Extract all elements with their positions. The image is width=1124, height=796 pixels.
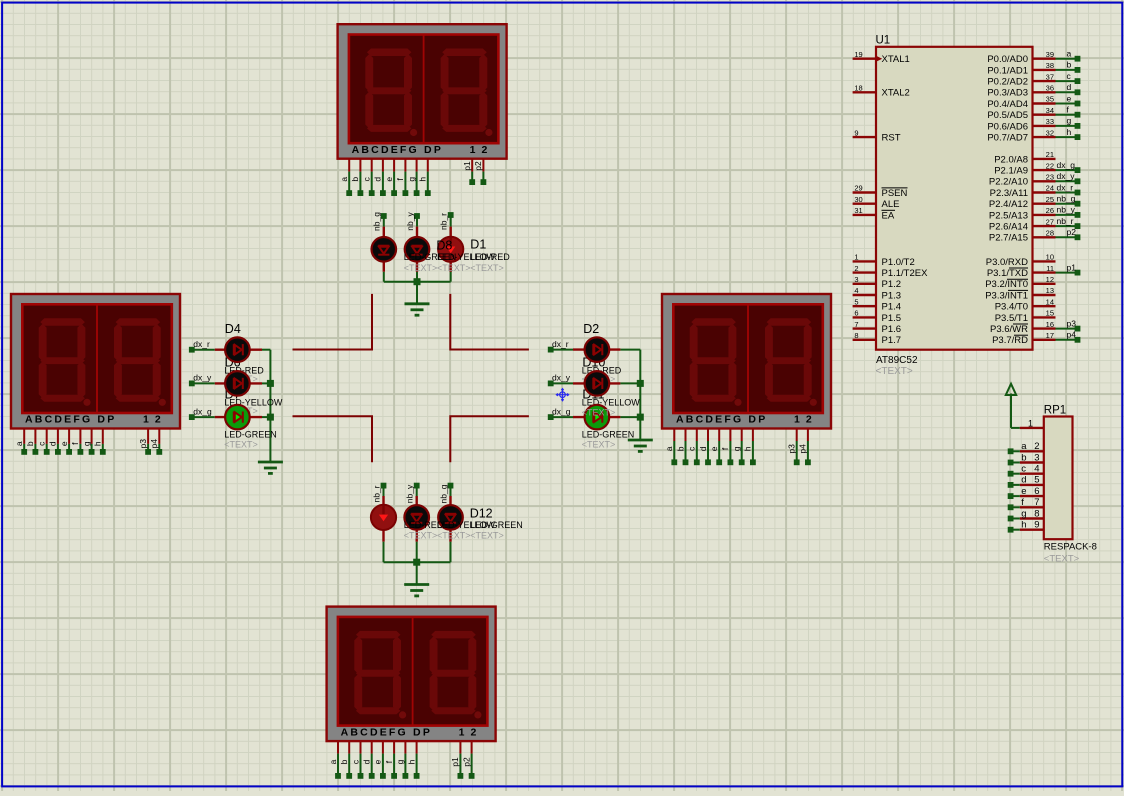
led D2 green on xyxy=(585,405,610,430)
svg-text:<TEXT>: <TEXT> xyxy=(437,531,471,541)
wire LED cathode xyxy=(416,542,418,563)
svg-text:P1.6: P1.6 xyxy=(882,324,902,335)
U1 pin 33 P0.6/AD6 xyxy=(1033,125,1056,127)
node dx_r terminal xyxy=(548,347,554,353)
svg-text:<TEXT>: <TEXT> xyxy=(404,263,438,273)
svg-text:17: 17 xyxy=(1046,331,1054,340)
RP1 pin 6 net e xyxy=(1020,495,1044,497)
terminal p4 xyxy=(1075,337,1081,343)
U1 pin 1 P1.0/T2 xyxy=(853,260,876,262)
display right pin h wire xyxy=(752,429,754,441)
svg-text:P0.5/AD5: P0.5/AD5 xyxy=(987,110,1028,121)
svg-text:<TEXT>: <TEXT> xyxy=(404,531,438,541)
svg-text:34: 34 xyxy=(1046,106,1054,115)
svg-text:P2.6/A14: P2.6/A14 xyxy=(989,222,1028,233)
node dx_y terminal xyxy=(189,381,195,387)
display top pin c wire xyxy=(371,159,373,172)
svg-text:ALE: ALE xyxy=(882,199,900,210)
display top pin p1 wire xyxy=(471,159,473,172)
svg-text:LED-GREEN: LED-GREEN xyxy=(470,520,523,530)
svg-text:AT89C52: AT89C52 xyxy=(876,355,918,366)
svg-text:5: 5 xyxy=(854,297,858,306)
svg-text:14: 14 xyxy=(1046,297,1054,306)
svg-text:2: 2 xyxy=(854,264,858,273)
svg-text:g: g xyxy=(406,177,416,182)
wire net g xyxy=(1056,125,1078,127)
wire net f xyxy=(1056,114,1078,116)
svg-text:13: 13 xyxy=(1046,286,1054,295)
svg-text:<TEXT>: <TEXT> xyxy=(224,440,258,450)
U1 pin 24 P2.3/A11 xyxy=(1033,191,1056,193)
svg-text:30: 30 xyxy=(854,195,862,204)
svg-text:a: a xyxy=(339,177,349,182)
RP1 pin 9 net h xyxy=(1020,529,1044,531)
U1 pin 16 P3.6/WR xyxy=(1033,327,1056,329)
display bottom pin g wire xyxy=(404,741,406,753)
svg-text:22: 22 xyxy=(1046,161,1054,170)
node dx_g terminal xyxy=(548,414,554,420)
wire cathode bus left group xyxy=(269,350,271,462)
svg-text:P3.2/INT0: P3.2/INT0 xyxy=(985,279,1028,290)
U1 pin 6 P1.5 xyxy=(853,316,876,318)
svg-text:e: e xyxy=(384,177,394,182)
svg-text:4: 4 xyxy=(854,286,858,295)
ground top group xyxy=(405,302,430,305)
svg-text:<TEXT>: <TEXT> xyxy=(582,439,616,449)
svg-text:P2.7/A15: P2.7/A15 xyxy=(989,233,1028,244)
U1 pin 4 P1.3 xyxy=(853,294,876,296)
wire nb_g to LED xyxy=(450,486,452,496)
7-segment display right xyxy=(662,294,831,429)
terminal d xyxy=(1075,89,1081,95)
svg-text:P0.1/AD1: P0.1/AD1 xyxy=(987,65,1028,76)
svg-text:LED-RED: LED-RED xyxy=(470,252,510,262)
svg-text:p4: p4 xyxy=(1067,330,1077,340)
svg-text:p2: p2 xyxy=(473,161,483,171)
svg-text:<TEXT>: <TEXT> xyxy=(470,531,504,541)
wire cathode bus right group xyxy=(639,350,641,440)
terminal p3 xyxy=(1075,326,1081,332)
svg-text:25: 25 xyxy=(1046,195,1054,204)
svg-text:b: b xyxy=(350,177,360,182)
wire LED cathode xyxy=(262,349,270,351)
svg-text:RST: RST xyxy=(882,133,901,144)
display bottom pin h wire xyxy=(416,741,418,753)
display left pin b wire xyxy=(34,429,36,444)
svg-text:nb_g: nb_g xyxy=(438,484,448,503)
svg-text:9: 9 xyxy=(854,128,858,137)
wire LED cathode xyxy=(620,349,640,351)
origin marker xyxy=(556,389,568,401)
wire net dx_g xyxy=(1056,169,1078,171)
svg-text:28: 28 xyxy=(1046,229,1054,238)
U1 pin 38 P0.1/AD1 xyxy=(1033,69,1056,71)
road bottom-left corner xyxy=(293,416,373,462)
svg-text:D4: D4 xyxy=(225,322,241,336)
svg-text:27: 27 xyxy=(1046,217,1054,226)
wire net h xyxy=(1056,136,1078,138)
U1 pin 22 P2.1/A9 xyxy=(1033,169,1056,171)
terminal dx_g xyxy=(1075,167,1081,173)
svg-text:26: 26 xyxy=(1046,206,1054,215)
display bottom pin d wire xyxy=(371,741,373,753)
power symbol VCC xyxy=(1006,384,1016,395)
ground left group xyxy=(258,461,283,464)
svg-text:29: 29 xyxy=(854,184,862,193)
RP1 pin 5 net d xyxy=(1020,484,1044,486)
svg-text:dx_g: dx_g xyxy=(1057,160,1076,170)
svg-text:P2.0/A8: P2.0/A8 xyxy=(994,154,1028,165)
svg-text:p3: p3 xyxy=(1067,318,1077,328)
wire nb_y to LED xyxy=(416,486,418,496)
svg-text:21: 21 xyxy=(1046,150,1054,159)
U1 pin 36 P0.3/AD3 xyxy=(1033,91,1056,93)
svg-text:nb_r: nb_r xyxy=(371,485,381,502)
svg-text:XTAL2: XTAL2 xyxy=(882,88,910,99)
U1 pin 27 P2.6/A14 xyxy=(1033,225,1056,227)
svg-text:p2: p2 xyxy=(1067,227,1077,237)
svg-text:37: 37 xyxy=(1046,72,1054,81)
wire LED cathode xyxy=(416,272,418,282)
display right pin d wire xyxy=(707,429,709,441)
svg-text:8: 8 xyxy=(1034,508,1039,519)
svg-text:D8: D8 xyxy=(436,238,452,252)
display top pin a wire xyxy=(348,159,350,172)
wire LED cathode xyxy=(262,416,270,418)
svg-text:P2.3/A11: P2.3/A11 xyxy=(990,188,1028,199)
U1 pin 29 PSEN xyxy=(853,191,876,193)
U1 XTAL1 clock arrow xyxy=(876,56,882,62)
led D6 red off xyxy=(225,337,250,362)
node nb_r terminal xyxy=(381,483,387,489)
svg-text:5: 5 xyxy=(1034,475,1039,486)
svg-text:P1.2: P1.2 xyxy=(882,279,902,290)
svg-text:P2.5/A13: P2.5/A13 xyxy=(989,210,1028,221)
display left pin g wire xyxy=(91,429,93,444)
svg-text:nb_r: nb_r xyxy=(1057,216,1074,226)
svg-text:18: 18 xyxy=(854,84,862,93)
wire net e xyxy=(1056,103,1078,105)
U1 pin 3 P1.2 xyxy=(853,283,876,285)
svg-text:PSEN: PSEN xyxy=(882,188,908,199)
svg-text:P2.1/A9: P2.1/A9 xyxy=(994,166,1028,177)
wire to ground xyxy=(416,562,418,584)
svg-text:h: h xyxy=(418,177,428,182)
svg-text:P1.7: P1.7 xyxy=(882,335,902,346)
svg-text:P1.5: P1.5 xyxy=(882,313,902,324)
display top pin d wire xyxy=(382,159,384,172)
wire LED cathode xyxy=(620,382,640,384)
node dx_r terminal xyxy=(189,347,195,353)
display right pin p4 wire xyxy=(807,429,809,441)
terminal nb_y xyxy=(1075,212,1081,218)
svg-text:12: 12 xyxy=(1046,275,1054,284)
svg-text:d: d xyxy=(1067,82,1072,92)
wire LED cathode xyxy=(262,382,270,384)
wire LED cathode xyxy=(383,272,385,282)
terminal f xyxy=(1075,112,1081,118)
wire LED cathode xyxy=(383,542,385,563)
svg-text:D1: D1 xyxy=(470,238,486,252)
RP1 pin 8 net g xyxy=(1020,517,1044,519)
wire net c xyxy=(1056,80,1078,82)
U1 pin 7 P1.6 xyxy=(853,327,876,329)
U1 pin 39 P0.0/AD0 xyxy=(1033,58,1056,60)
led D5 green off xyxy=(372,237,397,262)
wire LED cathode xyxy=(620,416,640,418)
display right pin b wire xyxy=(685,429,687,441)
U1 pin 30 ALE xyxy=(853,202,876,204)
svg-text:P1.3: P1.3 xyxy=(882,290,902,301)
svg-text:24: 24 xyxy=(1046,184,1054,193)
wire net d xyxy=(1056,91,1078,93)
display right pin a wire xyxy=(673,429,675,441)
svg-text:P3.7/RD: P3.7/RD xyxy=(992,335,1028,346)
svg-text:a: a xyxy=(1067,49,1072,59)
svg-text:dx_y: dx_y xyxy=(1057,171,1076,181)
svg-text:h: h xyxy=(406,759,416,764)
svg-text:p3: p3 xyxy=(138,439,148,449)
wire cathode bus bottom group xyxy=(384,561,451,563)
svg-text:31: 31 xyxy=(854,206,862,215)
U1 pin 18 XTAL2 xyxy=(853,91,876,93)
svg-text:h: h xyxy=(93,441,103,446)
svg-text:p4: p4 xyxy=(149,439,159,449)
U1 pin 11 P3.1/TXD xyxy=(1033,271,1056,273)
svg-text:LED-GREEN: LED-GREEN xyxy=(224,430,277,440)
road bottom-right corner xyxy=(450,416,529,462)
svg-text:p2: p2 xyxy=(461,757,471,767)
junction xyxy=(413,559,420,566)
U1 pin 21 P2.0/A8 xyxy=(1033,158,1056,160)
display right pin c wire xyxy=(696,429,698,441)
terminal nb_r xyxy=(1075,223,1081,229)
svg-text:d: d xyxy=(698,446,708,451)
svg-text:dx_r: dx_r xyxy=(1057,182,1074,192)
svg-text:7: 7 xyxy=(1034,497,1039,508)
svg-text:p3: p3 xyxy=(787,444,797,454)
display left pin d wire xyxy=(57,429,59,444)
led D4 green on xyxy=(225,405,250,430)
svg-text:p1: p1 xyxy=(1067,262,1077,272)
svg-text:b: b xyxy=(1021,452,1026,463)
svg-text:6: 6 xyxy=(854,309,858,318)
ground right group xyxy=(628,439,653,442)
wire net p3 xyxy=(1056,328,1078,330)
U1 pin 28 P2.7/A15 xyxy=(1033,236,1056,238)
wire net dx_r xyxy=(1056,192,1078,194)
junction xyxy=(637,414,644,421)
terminal g xyxy=(1075,123,1081,129)
display bottom pin b wire xyxy=(348,741,350,753)
svg-text:p1: p1 xyxy=(450,757,460,767)
svg-text:35: 35 xyxy=(1046,95,1054,104)
display right pin p3 wire xyxy=(796,429,798,441)
terminal nb_g xyxy=(1075,201,1081,207)
svg-text:h: h xyxy=(1021,520,1026,531)
led D10 red off xyxy=(585,337,610,362)
svg-text:P0.4/AD4: P0.4/AD4 xyxy=(987,99,1028,110)
svg-text:<TEXT>: <TEXT> xyxy=(1044,554,1080,565)
svg-text:b: b xyxy=(675,446,685,451)
svg-text:7: 7 xyxy=(854,320,858,329)
svg-text:D12: D12 xyxy=(470,507,493,521)
7-segment display left xyxy=(11,294,180,429)
U1 pin 34 P0.5/AD5 xyxy=(1033,113,1056,115)
svg-text:d: d xyxy=(48,441,58,446)
svg-text:dx_r: dx_r xyxy=(552,339,569,349)
wire nb_g to LED xyxy=(383,216,385,227)
svg-text:h: h xyxy=(1067,127,1072,137)
display bottom pin e wire xyxy=(382,741,384,753)
svg-text:38: 38 xyxy=(1046,61,1054,70)
junction xyxy=(637,380,644,387)
U1 pin 9 RST xyxy=(853,136,876,138)
wire net nb_g xyxy=(1056,203,1078,205)
display bottom pin p1 wire xyxy=(459,741,461,753)
wire net p1 xyxy=(1056,272,1078,274)
junction xyxy=(267,380,274,387)
wire net p4 xyxy=(1056,339,1078,341)
svg-text:P3.6/WR: P3.6/WR xyxy=(990,324,1028,335)
svg-text:b: b xyxy=(1067,60,1072,70)
svg-text:c: c xyxy=(1021,464,1026,475)
svg-text:P2.4/A12: P2.4/A12 xyxy=(989,199,1028,210)
node nb_g terminal xyxy=(381,213,387,219)
svg-text:XTAL1: XTAL1 xyxy=(882,54,910,65)
U1 pin 31 EA xyxy=(853,214,876,216)
U1 pin 26 P2.5/A13 xyxy=(1033,214,1056,216)
svg-text:16: 16 xyxy=(1046,320,1054,329)
svg-text:3: 3 xyxy=(854,275,858,284)
svg-text:36: 36 xyxy=(1046,84,1054,93)
junction xyxy=(414,278,421,285)
wire net nb_r xyxy=(1056,225,1078,227)
display left pin e wire xyxy=(68,429,70,444)
terminal e xyxy=(1075,101,1081,107)
svg-text:P0.6/AD6: P0.6/AD6 xyxy=(987,121,1028,132)
svg-text:p4: p4 xyxy=(798,444,808,454)
svg-text:P0.0/AD0: P0.0/AD0 xyxy=(987,54,1028,65)
svg-text:P3.4/T0: P3.4/T0 xyxy=(995,302,1028,313)
op U1 AT89C52 microcontroller xyxy=(876,47,1033,350)
display bottom pin c wire xyxy=(360,741,362,753)
svg-text:nb_y: nb_y xyxy=(405,484,415,503)
RP1 pin 3 net b xyxy=(1020,461,1044,463)
U1 pin 2 P1.1/T2EX xyxy=(853,271,876,273)
U1 pin 37 P0.2/AD2 xyxy=(1033,80,1056,82)
svg-text:33: 33 xyxy=(1046,117,1054,126)
svg-text:<TEXT>: <TEXT> xyxy=(582,407,616,417)
junction xyxy=(267,414,274,421)
node nb_y terminal xyxy=(414,483,420,489)
terminal a xyxy=(1075,56,1081,62)
svg-text:nb_g: nb_g xyxy=(1057,194,1076,204)
svg-text:d: d xyxy=(373,177,383,182)
svg-text:a: a xyxy=(1021,441,1027,452)
display right pin e wire xyxy=(718,429,720,441)
led D12 red on xyxy=(371,505,396,530)
svg-text:p1: p1 xyxy=(462,161,472,171)
svg-text:RP1: RP1 xyxy=(1044,405,1066,417)
wire nb_r to LED xyxy=(450,215,452,227)
svg-text:P0.7/AD7: P0.7/AD7 xyxy=(987,133,1028,144)
svg-text:e: e xyxy=(59,441,69,446)
wire LED cathode xyxy=(450,542,452,563)
RP1 pin 4 net c xyxy=(1020,473,1044,475)
wire dx_g xyxy=(551,416,573,418)
road top-left corner xyxy=(293,294,373,350)
led D7 yellow off xyxy=(225,371,250,396)
svg-text:2: 2 xyxy=(1034,441,1039,452)
node dx_g terminal xyxy=(189,414,195,420)
svg-text:P1.4: P1.4 xyxy=(882,302,902,313)
svg-text:<TEXT>: <TEXT> xyxy=(470,263,504,273)
wire cathode bus top group xyxy=(384,281,451,283)
wire nb_r to LED xyxy=(383,486,385,496)
led D11 yellow off xyxy=(585,371,610,396)
svg-text:g: g xyxy=(81,441,91,446)
svg-text:dx_y: dx_y xyxy=(193,373,212,383)
RP1 pin 1 xyxy=(1020,427,1044,429)
U1 pin 23 P2.2/A10 xyxy=(1033,180,1056,182)
svg-text:9: 9 xyxy=(1034,520,1039,531)
svg-text:nb_g: nb_g xyxy=(372,212,382,231)
svg-text:U1: U1 xyxy=(876,35,891,47)
display left pin p3 wire xyxy=(147,429,149,444)
svg-text:c: c xyxy=(350,759,360,764)
svg-text:c: c xyxy=(687,446,697,451)
svg-text:P3.0/RXD: P3.0/RXD xyxy=(986,257,1028,268)
svg-text:P3.1/TXD: P3.1/TXD xyxy=(987,268,1028,279)
svg-text:dx_r: dx_r xyxy=(193,339,210,349)
svg-text:a: a xyxy=(328,759,338,764)
node nb_y terminal xyxy=(414,213,420,219)
display top pin g wire xyxy=(416,159,418,172)
led D9 yellow off xyxy=(404,505,429,530)
svg-text:10: 10 xyxy=(1046,253,1054,262)
wire net b xyxy=(1056,69,1078,71)
wire dx_y xyxy=(551,382,573,384)
svg-text:f: f xyxy=(1021,497,1024,508)
U1 pin 12 P3.2/INT0 xyxy=(1033,283,1056,285)
wire LED cathode xyxy=(450,272,452,282)
svg-text:P0.3/AD3: P0.3/AD3 xyxy=(987,88,1028,99)
wire to ground xyxy=(416,282,418,304)
display right pin g wire xyxy=(741,429,743,441)
svg-text:19: 19 xyxy=(854,50,862,59)
svg-text:P3.5/T1: P3.5/T1 xyxy=(995,313,1028,324)
svg-text:15: 15 xyxy=(1046,309,1054,318)
node dx_y terminal xyxy=(548,381,554,387)
U1 pin 14 P3.4/T0 xyxy=(1033,305,1056,307)
svg-text:P2.2/A10: P2.2/A10 xyxy=(989,177,1028,188)
display bottom pin a wire xyxy=(337,741,339,753)
wire net a xyxy=(1056,58,1078,60)
svg-text:nb_r: nb_r xyxy=(439,213,449,230)
svg-text:dx_y: dx_y xyxy=(552,373,571,383)
svg-text:e: e xyxy=(373,759,383,764)
U1 pin 8 P1.7 xyxy=(853,339,876,341)
7-segment display bottom xyxy=(327,607,496,742)
svg-text:e: e xyxy=(709,446,719,451)
wire dx_r xyxy=(551,349,573,351)
svg-text:D2: D2 xyxy=(583,322,599,336)
svg-text:3: 3 xyxy=(1034,452,1039,463)
display top pin h wire xyxy=(427,159,429,172)
terminal p2 xyxy=(1075,234,1081,240)
display left pin a wire xyxy=(23,429,25,444)
